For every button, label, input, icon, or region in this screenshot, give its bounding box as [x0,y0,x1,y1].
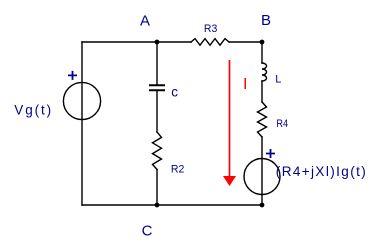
svg-text:R2: R2 [171,164,184,176]
svg-text:C: C [142,223,153,240]
svg-text:I: I [243,76,247,93]
svg-text:A: A [140,13,150,30]
svg-text:(R4+jXl)Ig(t): (R4+jXl)Ig(t) [276,164,367,179]
svg-text:Vg(t): Vg(t) [14,102,53,117]
svg-text:R3: R3 [204,23,217,35]
svg-text:c: c [171,85,178,100]
svg-text:L: L [275,73,281,85]
svg-text:B: B [261,12,271,29]
svg-text:R4: R4 [276,118,288,130]
